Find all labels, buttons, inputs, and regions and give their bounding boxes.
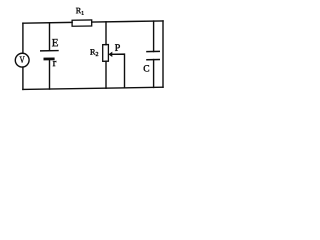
wire left (upper) bbox=[22, 23, 24, 53]
capacitor C bottom plate bbox=[146, 58, 160, 60]
wire battery bottom to bottom wire bbox=[49, 60, 51, 89]
wire cap bottom to bottom wire bbox=[153, 60, 155, 88]
capacitor C top plate bbox=[146, 50, 160, 52]
wiper arrowhead bbox=[108, 52, 112, 57]
wire bottom bbox=[23, 87, 163, 89]
svg-text:R1: R1 bbox=[76, 6, 84, 17]
resistor R1 box bbox=[72, 20, 92, 26]
battery E short plate bbox=[44, 57, 55, 60]
wire top bbox=[23, 21, 163, 23]
battery E long plate bbox=[40, 50, 59, 52]
node R2 top tap bbox=[105, 22, 107, 45]
svg-text:R2: R2 bbox=[90, 47, 98, 58]
svg-text:V: V bbox=[20, 56, 25, 66]
wire R2 bottom to bottom wire bbox=[105, 61, 107, 88]
node battery-top bbox=[49, 23, 51, 50]
wire left (lower) bbox=[22, 67, 24, 89]
svg-text:P: P bbox=[115, 43, 121, 54]
wire wiper L to bottom bbox=[111, 54, 124, 88]
voltmeter V bbox=[15, 53, 29, 67]
rheostat R2 box bbox=[103, 45, 109, 62]
wire cap top tap bbox=[153, 21, 155, 51]
svg-text:E: E bbox=[52, 37, 59, 49]
svg-text:C: C bbox=[143, 64, 149, 74]
svg-text:r: r bbox=[53, 57, 57, 69]
wire right bbox=[162, 21, 164, 87]
